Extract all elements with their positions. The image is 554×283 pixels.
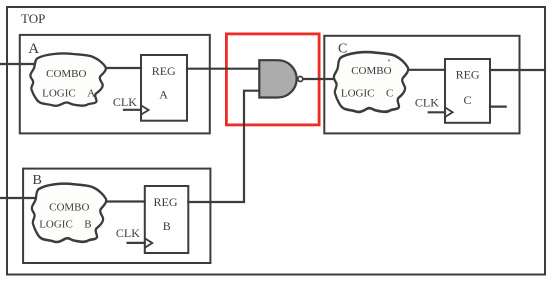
wire: CLK A stub xyxy=(124,109,141,111)
clock edge triangle on REG A xyxy=(141,105,149,114)
svg-text:REG: REG xyxy=(154,195,178,209)
svg-text:CLK: CLK xyxy=(116,226,140,240)
svg-text:A: A xyxy=(28,41,39,57)
wire: REG C second output stub xyxy=(490,105,506,107)
wire: COMBO LOGIC A to REG A (D input) xyxy=(105,67,141,69)
scan speck near cloud C xyxy=(388,59,390,61)
wire: CLK B stub xyxy=(128,242,145,244)
combinational cloud C xyxy=(334,52,408,112)
combinational cloud B xyxy=(32,184,106,242)
register REG B box xyxy=(145,186,189,253)
clock edge triangle on REG C xyxy=(445,107,453,117)
wire: REG C output (Q) to TOP right boundary xyxy=(490,69,545,71)
wire: primary input into COMBO LOGIC B xyxy=(0,197,40,199)
wire: primary input into COMBO LOGIC A xyxy=(0,63,40,65)
svg-text:A: A xyxy=(87,88,95,100)
svg-text:B: B xyxy=(33,173,42,188)
svg-text:REG: REG xyxy=(456,67,480,81)
NAND gate U1 xyxy=(259,60,296,97)
svg-text:B: B xyxy=(84,219,91,231)
svg-text:COMBO: COMBO xyxy=(46,68,86,80)
svg-text:C: C xyxy=(338,41,347,56)
register REG A box xyxy=(141,55,187,121)
svg-text:C: C xyxy=(386,87,393,99)
wire: NAND output to COMBO LOGIC C xyxy=(303,78,334,80)
NAND output inversion bubble xyxy=(298,77,303,82)
wire: REG A output (Q) to NAND upper input xyxy=(187,68,259,70)
svg-text:LOGIC: LOGIC xyxy=(341,87,375,99)
clock edge triangle on REG B xyxy=(145,238,153,247)
svg-text:COMBO: COMBO xyxy=(49,201,89,213)
svg-text:LOGIC: LOGIC xyxy=(42,88,76,100)
block A boundary xyxy=(20,35,210,133)
svg-text:B: B xyxy=(163,219,171,233)
svg-text:CLK: CLK xyxy=(415,95,439,109)
highlight box (red) around NAND xyxy=(226,34,319,125)
svg-text:LOGIC: LOGIC xyxy=(39,219,73,231)
wire: CLK C stub xyxy=(429,111,445,113)
svg-text:TOP: TOP xyxy=(21,11,45,26)
block C boundary xyxy=(324,36,519,134)
block B boundary xyxy=(23,169,210,263)
wire: REG B output (Q) right, up, into NAND lower input xyxy=(188,91,259,202)
svg-text:A: A xyxy=(159,88,168,102)
wire: COMBO LOGIC B to REG B (D input) xyxy=(107,200,145,202)
wire: COMBO LOGIC C to REG C (D input) xyxy=(408,69,445,71)
svg-text:COMBO: COMBO xyxy=(351,65,391,77)
svg-text:REG: REG xyxy=(152,64,176,78)
svg-text:CLK: CLK xyxy=(113,95,137,109)
combinational cloud A xyxy=(30,53,105,105)
register REG C box xyxy=(445,59,490,123)
svg-text:C: C xyxy=(463,93,471,107)
